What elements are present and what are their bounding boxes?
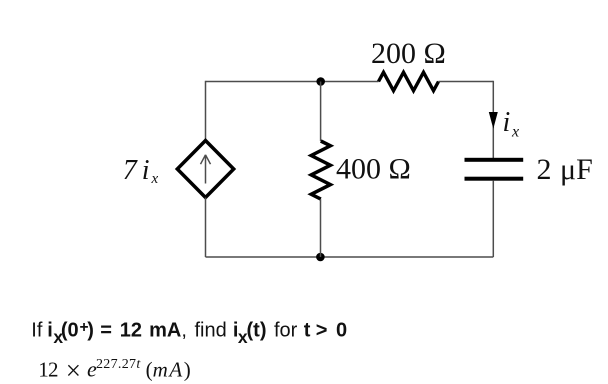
source arrow inside diamond <box>201 155 211 184</box>
svg-text:7: 7 <box>123 155 138 186</box>
wire: left lower segment <box>205 198 207 258</box>
wire: bottom segment <box>206 256 494 258</box>
resistor R2 400 ohm zigzag <box>311 141 330 199</box>
svg-text:i: i <box>503 107 511 138</box>
svg-text:Ω: Ω <box>424 37 446 70</box>
wire: top-left segment <box>206 81 379 83</box>
node dot: bottom junction <box>316 253 325 262</box>
svg-text:i: i <box>142 155 150 186</box>
node dot: top junction <box>316 77 325 86</box>
svg-text:400: 400 <box>336 153 381 186</box>
wire: middle lower segment <box>320 199 322 257</box>
svg-text:Ω: Ω <box>389 153 411 186</box>
wire: top-right segment <box>439 81 494 83</box>
capacitor C1 top plate <box>465 158 524 162</box>
dependent current source U1 diamond <box>177 141 233 198</box>
svg-text:x: x <box>151 171 159 187</box>
svg-text:Ifix(0+)=12mA,findix(t)fort>0: Ifix(0+)=12mA,findix(t)fort>0 <box>31 319 347 347</box>
wire: right upper segment <box>492 81 494 158</box>
wire: left upper segment <box>205 81 207 141</box>
current arrow i_x <box>489 112 498 129</box>
wire: right lower segment <box>492 181 494 257</box>
svg-text:x: x <box>511 124 519 141</box>
capacitor C1 bottom plate <box>465 177 524 181</box>
svg-text:2: 2 <box>537 153 552 186</box>
resistor R1 200 ohm zigzag <box>379 72 439 90</box>
svg-text:μF: μF <box>560 153 593 186</box>
svg-text:12×e227.27t(mA): 12×e227.27t(mA) <box>38 356 191 384</box>
svg-text:200: 200 <box>371 37 416 70</box>
wire: middle upper segment <box>320 82 322 142</box>
